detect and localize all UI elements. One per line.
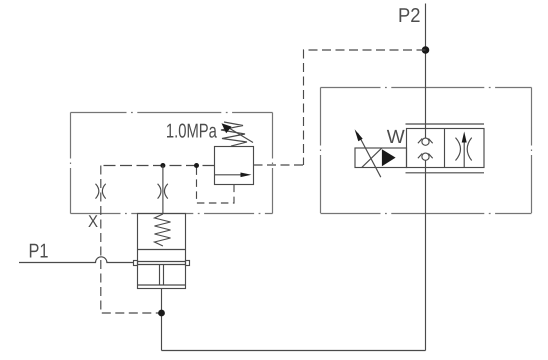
unloading valve left port tab [134, 261, 138, 266]
relief valve internal flow arrow [215, 174, 243, 176]
relief valve adjustable spring [221, 122, 247, 146]
wire pilot line dashed horizontal to relief valve [101, 165, 215, 167]
throttle orifice in right cell [456, 138, 472, 161]
unloading valve inner seat verticals [160, 265, 164, 286]
svg-text:P2: P2 [398, 5, 421, 27]
valve top rail [406, 123, 485, 125]
wire P2 vertical upper segment [425, 4, 427, 139]
wire P1 line with jump arc over X line [19, 257, 133, 263]
solenoid X diagonal [362, 148, 382, 168]
valve body U1 [407, 129, 485, 168]
throttle flow arrow [463, 142, 465, 168]
solenoid actuator box [355, 148, 407, 168]
wire P2 vertical lower segment [425, 160, 427, 350]
unloading valve V1 outer body [138, 214, 186, 289]
enclosure right box (dash-dot-dot border) [321, 88, 532, 214]
solenoid wedge triangle [382, 149, 396, 166]
unloading valve divider line [138, 249, 186, 251]
wire bottom return line [162, 350, 426, 352]
node pilot junction dot B [194, 163, 199, 168]
orifice on X pilot line [96, 184, 106, 199]
proportional adjustment arrow through solenoid [358, 133, 381, 177]
wire dashed pilot from P2 node to relief valve outlet [304, 50, 426, 165]
valve body divider [444, 129, 446, 168]
unloading valve spring [155, 214, 171, 246]
svg-text:1.0MPa: 1.0MPa [166, 121, 218, 143]
valve bottom rail [406, 172, 485, 174]
relief valve RV1 body [215, 147, 254, 185]
svg-text:P1: P1 [29, 241, 49, 263]
enclosure left box (dash-dot-dot border) [71, 113, 273, 214]
svg-text:W: W [387, 127, 405, 148]
wire valve outlet down [161, 289, 163, 351]
unloading valve spool bar lines [138, 262, 186, 265]
orifice on spring chamber line [158, 184, 168, 199]
relief valve spring adjustment arrow [227, 127, 254, 143]
node junction dot P2/pilot [422, 46, 430, 54]
check ball 2 [422, 153, 429, 160]
unloading valve inner bottom line [138, 284, 186, 286]
check ball 1 [422, 138, 429, 145]
unloading valve right port tab [186, 261, 190, 266]
wire relief valve drain dashed loop [197, 166, 235, 204]
wire spring chamber pilot vertical [162, 166, 164, 214]
wire X pilot line dashed vertical and to bottom node [101, 166, 162, 314]
node outlet junction dot [158, 310, 165, 317]
node pilot junction dot A [160, 163, 165, 168]
svg-text:X: X [88, 212, 98, 231]
